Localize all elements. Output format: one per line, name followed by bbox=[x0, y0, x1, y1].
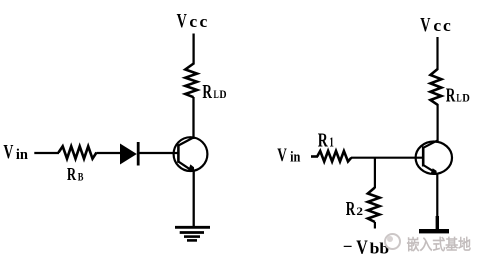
svg-text:R: R bbox=[446, 85, 456, 106]
svg-text:V: V bbox=[277, 145, 287, 166]
resistor RLD (right, vertical zigzag) bbox=[430, 69, 441, 105]
wire emitter to ground (right) bbox=[436, 174, 438, 217]
label R2 bbox=[346, 199, 363, 220]
svg-text:V: V bbox=[356, 238, 368, 259]
ground bar (right) bbox=[419, 229, 449, 233]
node Vcc label (left) bbox=[177, 10, 208, 32]
transistor Q2 circle bbox=[416, 142, 452, 174]
svg-text:−: − bbox=[343, 237, 353, 256]
svg-text:in: in bbox=[290, 150, 300, 166]
label R1 bbox=[318, 131, 334, 152]
svg-text:B: B bbox=[78, 172, 84, 184]
transistor Q2 base bar bbox=[422, 146, 425, 166]
wire junction down to R2 bbox=[374, 158, 376, 188]
node Vin label (right) bbox=[277, 145, 300, 166]
svg-text:2: 2 bbox=[356, 204, 363, 218]
wire R1 to base (right) bbox=[351, 157, 422, 159]
svg-text:D: D bbox=[462, 92, 470, 104]
svg-text:c: c bbox=[443, 16, 451, 35]
label RLD (right) bbox=[446, 85, 470, 106]
label RB bbox=[67, 164, 84, 184]
transistor Q1 circle bbox=[174, 137, 208, 171]
resistor RB (horizontal zigzag) bbox=[59, 146, 97, 158]
svg-text:D: D bbox=[219, 89, 226, 101]
resistor RLD (left, vertical zigzag) bbox=[185, 64, 197, 98]
node Vcc label (right) bbox=[420, 14, 451, 36]
ground (left) bbox=[175, 227, 210, 240]
wire emitter to ground (left) bbox=[193, 170, 195, 227]
svg-text:c: c bbox=[433, 16, 441, 35]
diode D1 triangle bbox=[120, 144, 137, 165]
svg-text:c: c bbox=[200, 12, 208, 31]
transistor Q2 emitter diagonal with arrow bbox=[423, 165, 435, 172]
svg-text:R: R bbox=[202, 82, 212, 103]
wire R2 to -Vbb bbox=[374, 222, 376, 229]
wire diode to base bbox=[140, 152, 179, 154]
svg-text:1: 1 bbox=[329, 135, 334, 150]
wire emitter lower thick segment (right) bbox=[436, 216, 439, 230]
svg-text:L: L bbox=[456, 92, 462, 104]
transistor Q1 base bar bbox=[177, 144, 180, 163]
svg-text:V: V bbox=[420, 14, 431, 36]
svg-text:V: V bbox=[3, 141, 13, 163]
node Vin label (left) bbox=[3, 141, 28, 163]
transistor Q1 emitter diagonal with arrow bbox=[178, 162, 190, 170]
wire Vin to RB bbox=[34, 152, 59, 154]
wire RB to diode bbox=[97, 152, 122, 154]
svg-text:R: R bbox=[346, 199, 356, 220]
transistor Q2 collector diagonal bbox=[423, 140, 438, 148]
svg-text:c: c bbox=[189, 12, 197, 31]
svg-text:嵌入式基地: 嵌入式基地 bbox=[407, 235, 472, 253]
label RLD (left) bbox=[202, 82, 226, 103]
wire RLD to collector (left) bbox=[192, 97, 194, 139]
transistor Q1 collector diagonal bbox=[178, 138, 193, 146]
svg-text:R: R bbox=[318, 131, 329, 152]
svg-text:R: R bbox=[67, 164, 76, 184]
node -Vbb label bbox=[343, 237, 390, 259]
svg-text:bb: bb bbox=[370, 241, 390, 258]
wire Vcc to RLD (right) bbox=[436, 37, 438, 70]
svg-text:V: V bbox=[177, 10, 188, 32]
wire Vin to R1 bbox=[311, 155, 318, 158]
svg-text:L: L bbox=[214, 89, 220, 101]
wire Vcc to RLD (left) bbox=[192, 34, 194, 65]
svg-text:in: in bbox=[16, 147, 29, 163]
wire RLD to collector (right) bbox=[437, 104, 439, 143]
diode D1 cathode bar bbox=[137, 142, 140, 166]
resistor R1 (horizontal zigzag) bbox=[317, 151, 351, 162]
resistor R2 (vertical zigzag) bbox=[368, 188, 380, 223]
watermark logo circle bbox=[385, 234, 400, 249]
